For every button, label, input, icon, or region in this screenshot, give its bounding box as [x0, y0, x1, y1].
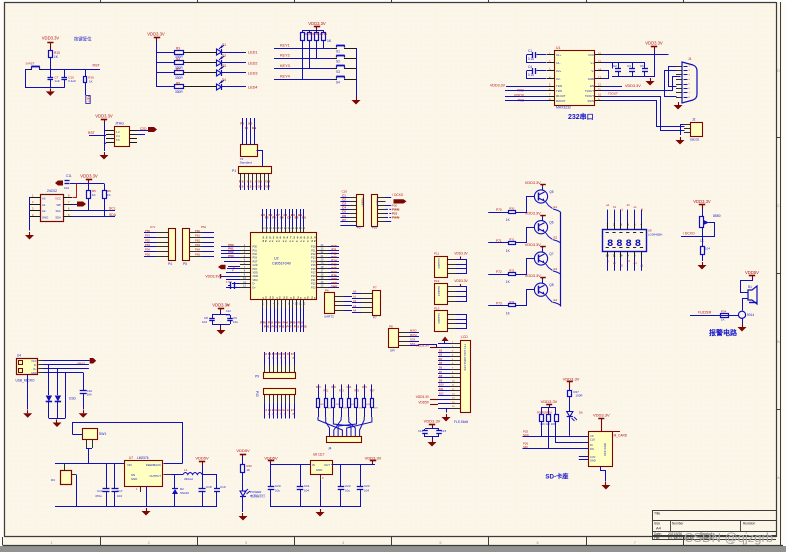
wire [425, 436, 439, 438]
svg-text:104: 104 [304, 489, 309, 493]
pin [447, 291, 456, 293]
pin [38, 360, 43, 362]
pin [399, 341, 409, 343]
wire [344, 310, 352, 312]
pin [190, 251, 202, 253]
svg-text:SCL: SCL [56, 209, 62, 213]
connector J1 DB9 [682, 62, 697, 103]
wire [157, 52, 175, 54]
wire bottom rail [271, 506, 360, 508]
wire [702, 254, 704, 261]
wire [386, 213, 392, 215]
svg-text:Q6: Q6 [549, 221, 553, 225]
wire [456, 273, 467, 275]
connector P4 [169, 229, 176, 261]
svg-text:VCC: VCC [55, 197, 61, 201]
pin EN [595, 86, 603, 88]
svg-text:1K: 1K [327, 39, 332, 43]
pin [240, 279, 251, 281]
svg-text:KEY2: KEY2 [280, 54, 290, 58]
svg-text:P12: P12 [311, 253, 316, 256]
pin [262, 300, 264, 308]
svg-text:C23: C23 [364, 484, 370, 488]
resistor R9 330R [175, 85, 184, 89]
wire [274, 308, 276, 332]
svg-text:VDD3.3V: VDD3.3V [212, 303, 230, 308]
svg-text:VDD3.3V: VDD3.3V [308, 21, 326, 26]
capacitor C20 [270, 465, 272, 488]
pin [240, 283, 251, 285]
wire [438, 408, 450, 410]
pin [676, 70, 682, 72]
svg-text:VCC: VCC [31, 360, 36, 363]
wire [328, 272, 339, 274]
pin [676, 88, 682, 90]
pin R2OUT [547, 100, 555, 102]
svg-text:P4: P4 [168, 262, 172, 266]
svg-text:1K: 1K [89, 80, 93, 84]
wire [344, 305, 352, 307]
svg-text:1 2 3 4 5 6 7 8: 1 2 3 4 5 6 7 8 [264, 357, 295, 360]
svg-text:3.3V: 3.3V [590, 455, 596, 459]
connector P2 [357, 195, 364, 227]
pin [450, 395, 460, 397]
svg-text:VCC GND: VCC GND [603, 443, 607, 456]
pin [292, 300, 294, 308]
svg-text:VDD3.3V: VDD3.3V [147, 32, 165, 37]
svg-text:P12: P12 [434, 279, 440, 283]
wire [340, 209, 349, 211]
capacitor C22 [340, 465, 342, 488]
pin [256, 173, 258, 182]
pin [63, 210, 72, 212]
connector P5 [183, 229, 190, 261]
svg-text:C3: C3 [627, 64, 631, 68]
svg-text:Number: Number [672, 522, 684, 526]
svg-text:11: 11 [613, 254, 616, 258]
wire base [488, 274, 501, 276]
svg-text:C21: C21 [304, 484, 310, 488]
svg-text:VDD3.3V: VDD3.3V [416, 395, 430, 399]
resistor R1 1K [49, 51, 53, 58]
pin [296, 226, 298, 233]
resistor R210 10K [555, 407, 557, 414]
transistor Q2 8550 [534, 221, 547, 234]
pin [264, 395, 266, 403]
pin [684, 128, 690, 130]
svg-text:C18: C18 [206, 485, 212, 489]
svg-text:P17: P17 [311, 272, 316, 275]
connector P1 header [239, 167, 272, 174]
wire [328, 253, 339, 255]
wire [614, 258, 616, 271]
wire [226, 279, 240, 281]
wire [55, 463, 125, 465]
svg-text:104: 104 [705, 247, 710, 251]
wire [281, 352, 283, 365]
capacitor C23 [360, 465, 362, 488]
wire [281, 403, 283, 419]
pin [450, 390, 460, 392]
pin [106, 142, 114, 144]
svg-text:6: 6 [537, 541, 539, 545]
svg-text:A4: A4 [656, 526, 662, 531]
svg-text:b1: b1 [613, 205, 616, 209]
pin [676, 92, 682, 94]
pin [281, 300, 283, 308]
wire [221, 250, 240, 252]
resistor R29 10K [548, 407, 550, 414]
wire LED rail [156, 41, 158, 87]
pin [240, 173, 242, 182]
pin [361, 307, 373, 309]
svg-text:232串口: 232串口 [568, 112, 594, 121]
svg-text:FEEDBACK: FEEDBACK [146, 463, 161, 467]
svg-text:Standard: Standard [240, 161, 253, 165]
capacitor C13 [106, 464, 108, 489]
resistor R13 1K [323, 30, 325, 33]
wire [85, 83, 87, 95]
wire base [488, 305, 501, 307]
wire [171, 474, 183, 476]
svg-text:VDD3.3V: VDD3.3V [42, 36, 60, 41]
pin [303, 226, 305, 233]
wire [262, 209, 264, 226]
svg-text:P61: P61 [195, 234, 200, 238]
svg-text:DB232: DB232 [690, 138, 700, 142]
svg-text:M_CARD: M_CARD [614, 434, 628, 438]
svg-text:104: 104 [87, 393, 92, 397]
wire [212, 324, 230, 326]
pin [378, 205, 386, 207]
svg-text:Revision: Revision [743, 522, 755, 526]
pin [676, 74, 682, 76]
svg-text:D4: D4 [222, 78, 226, 82]
svg-text:P51: P51 [145, 234, 150, 238]
pin [317, 246, 328, 248]
wire [285, 403, 287, 419]
wire [86, 448, 92, 450]
connector P12 [435, 284, 448, 305]
svg-text:P11: P11 [434, 252, 439, 256]
pin [63, 216, 72, 218]
connector J2 [691, 123, 703, 137]
svg-text:SPI: SPI [390, 349, 395, 353]
pin [277, 226, 279, 233]
pin [240, 246, 251, 248]
wire R1IN [603, 101, 685, 127]
svg-text:Header4: Header4 [437, 314, 441, 325]
svg-text:1K: 1K [247, 468, 251, 472]
wire [328, 283, 339, 285]
svg-text:VCC: VCC [588, 53, 594, 57]
wire [456, 296, 467, 298]
wire [257, 151, 263, 167]
svg-text:P9: P9 [255, 375, 259, 379]
svg-text:T2OUT: T2OUT [585, 94, 594, 98]
wire [184, 86, 216, 88]
wire [466, 315, 468, 329]
resistor R10 1K [302, 30, 304, 33]
wire [680, 124, 684, 126]
svg-text:P65: P65 [195, 252, 200, 256]
pin [450, 343, 460, 345]
pin [447, 268, 456, 270]
wire [456, 291, 467, 293]
pin [447, 286, 456, 288]
wire sd row1 [523, 436, 589, 438]
svg-text:C20: C20 [342, 190, 348, 194]
pin [38, 372, 43, 374]
wire [144, 256, 156, 258]
wire [137, 130, 148, 132]
capacitor C15 [438, 429, 440, 431]
svg-text:D+: D+ [253, 286, 257, 289]
wire [144, 232, 156, 234]
pin [156, 256, 168, 258]
connector P10 [264, 389, 296, 395]
wire [556, 442, 588, 444]
pin [684, 124, 690, 126]
svg-text:c1: c1 [620, 207, 623, 211]
svg-text:E3: E3 [554, 267, 558, 271]
ground [320, 509, 322, 512]
svg-text:EN: EN [252, 126, 256, 130]
wire [202, 242, 214, 244]
wire [274, 79, 333, 81]
svg-text:OUT: OUT [324, 463, 330, 467]
svg-text:LED2: LED2 [248, 62, 258, 66]
pin [607, 223, 609, 229]
pin T2OUT [595, 96, 603, 98]
wire [352, 312, 361, 314]
svg-text:4: 4 [342, 541, 344, 545]
wire [318, 408, 320, 418]
svg-text:C: C [777, 204, 780, 208]
IC U7 LM2576 [125, 461, 163, 487]
pin [277, 365, 279, 373]
svg-text:IN: IN [312, 463, 315, 467]
svg-text:VDD3.3V: VDD3.3V [525, 181, 541, 185]
svg-text:10u: 10u [275, 489, 280, 493]
svg-text:0.1uF: 0.1uF [68, 79, 76, 83]
transistor Q3 8550 [534, 252, 547, 265]
ground [702, 262, 704, 265]
pin [285, 300, 287, 308]
svg-text:24C02: 24C02 [47, 189, 57, 193]
svg-text:B0 B1 B2 B3 B4 B5 B6 B7: B0 B1 B2 B3 B4 B5 B6 B7 [264, 353, 295, 356]
wire [516, 290, 535, 306]
wire [456, 319, 467, 321]
svg-text:KEY3: KEY3 [280, 64, 290, 68]
svg-text:VDD3.3V: VDD3.3V [205, 275, 220, 279]
wire [409, 336, 419, 338]
pin [676, 84, 682, 86]
svg-text:1: 1 [51, 541, 53, 545]
wire [325, 408, 327, 418]
svg-text:104: 104 [202, 320, 207, 324]
pin [317, 272, 328, 274]
wire [137, 134, 145, 136]
svg-text:P23: P23 [311, 286, 316, 289]
svg-text:P22: P22 [311, 283, 316, 286]
svg-text:VDD3.3V: VDD3.3V [454, 252, 468, 256]
svg-text:dp: dp [613, 261, 616, 265]
svg-text:GND: GND [590, 459, 596, 463]
pin [296, 300, 298, 308]
pin [447, 264, 456, 266]
wire [273, 403, 275, 419]
title block [652, 510, 776, 512]
svg-text:A0: A0 [42, 197, 46, 201]
wire [57, 369, 59, 395]
wire [344, 296, 352, 298]
pin T1IN [547, 86, 555, 88]
wire [264, 403, 266, 419]
LED D2 [217, 60, 222, 66]
wire [356, 408, 358, 418]
svg-text:ESD: ESD [69, 397, 76, 401]
pin [634, 251, 636, 258]
wire vdd5 rail [271, 464, 310, 466]
pin [264, 173, 266, 182]
wire [300, 209, 302, 226]
pin [349, 217, 357, 219]
wire [333, 417, 351, 436]
pin [190, 232, 202, 234]
wire [281, 209, 283, 226]
capacitor C9 [230, 315, 232, 318]
pin [317, 268, 328, 270]
svg-text:C14: C14 [418, 429, 424, 433]
port PWM [394, 199, 407, 203]
wire [250, 118, 252, 145]
resistor R6 1K [104, 184, 106, 191]
wire [318, 384, 320, 398]
wire [83, 373, 85, 391]
pin [285, 395, 287, 403]
svg-text:C2-: C2- [556, 77, 561, 81]
wire [70, 183, 104, 185]
svg-text:1K: 1K [92, 193, 96, 197]
pin [317, 283, 328, 285]
svg-text:VDD3.3V: VDD3.3V [490, 84, 506, 88]
wire [579, 456, 588, 458]
pin [450, 373, 460, 375]
svg-text:P64: P64 [195, 248, 200, 252]
pin [447, 301, 456, 303]
pin [156, 232, 168, 234]
svg-text:C4: C4 [528, 65, 532, 69]
wire [614, 210, 616, 223]
pin [156, 237, 168, 239]
svg-text:VDD3.3V: VDD3.3V [525, 243, 541, 247]
pin [268, 173, 270, 182]
svg-text:d1: d1 [627, 203, 630, 207]
wire [221, 253, 240, 255]
wire [300, 308, 302, 332]
svg-text:SDA: SDA [55, 216, 61, 220]
connector P11 [435, 257, 448, 278]
wire [741, 279, 753, 293]
pin [361, 293, 373, 295]
svg-text:SW1: SW1 [99, 432, 106, 436]
svg-text:U7: U7 [129, 456, 133, 460]
pin [447, 296, 456, 298]
svg-text:C1: C1 [528, 49, 532, 53]
svg-text:WP: WP [56, 203, 61, 207]
wire [341, 384, 343, 398]
LED D4 [217, 84, 222, 90]
svg-text:5 6: 5 6 [116, 138, 120, 142]
pin [349, 221, 357, 223]
wire [73, 434, 83, 436]
pin [30, 216, 40, 218]
svg-text:C19: C19 [220, 485, 226, 489]
capacitor C17 [114, 464, 116, 489]
IC Y1 oscillator [241, 145, 258, 157]
wire [320, 480, 322, 507]
pin [156, 251, 168, 253]
svg-text:B3: B3 [439, 353, 443, 357]
pin C1- [547, 62, 555, 64]
resistor R34 1K [721, 314, 729, 318]
pin [270, 300, 272, 308]
buzzer B1 [748, 286, 757, 304]
wire [242, 496, 244, 512]
wire [328, 257, 339, 259]
wire [603, 71, 609, 79]
svg-text:P7: P7 [373, 316, 377, 320]
wire [601, 467, 606, 482]
svg-text:104: 104 [364, 489, 369, 493]
svg-text:P70: P70 [496, 208, 502, 212]
svg-text:P55: P55 [145, 252, 150, 256]
pin T2IN [547, 90, 555, 92]
IC U8 AMS1117 [311, 461, 333, 475]
svg-text:C2D: C2D [253, 264, 258, 267]
pin [447, 259, 456, 261]
wire [607, 210, 609, 223]
wire [294, 403, 296, 419]
pin [317, 250, 328, 252]
wire [43, 69, 100, 71]
pin [38, 364, 43, 366]
resistor R26 [363, 399, 366, 408]
svg-text:CLK: CLK [590, 438, 595, 442]
wire [277, 352, 279, 365]
svg-text:Q5: Q5 [549, 190, 553, 194]
wire [456, 323, 467, 325]
wire [352, 298, 361, 300]
wire [326, 417, 330, 436]
wire [242, 472, 244, 491]
svg-text:RST: RST [253, 260, 258, 263]
connector P3 [372, 195, 378, 227]
wire [456, 264, 467, 266]
pin [240, 272, 251, 274]
capacitor C4 0.1u [537, 70, 547, 72]
wire [202, 465, 204, 475]
svg-text:A2: A2 [42, 209, 46, 213]
svg-text:U2: U2 [274, 257, 279, 261]
wire [242, 118, 244, 145]
pin [450, 356, 460, 358]
wire [144, 242, 156, 244]
svg-text:SDI: SDI [523, 445, 528, 449]
svg-text:S1: S1 [336, 50, 340, 54]
svg-text:1K: 1K [107, 193, 111, 197]
